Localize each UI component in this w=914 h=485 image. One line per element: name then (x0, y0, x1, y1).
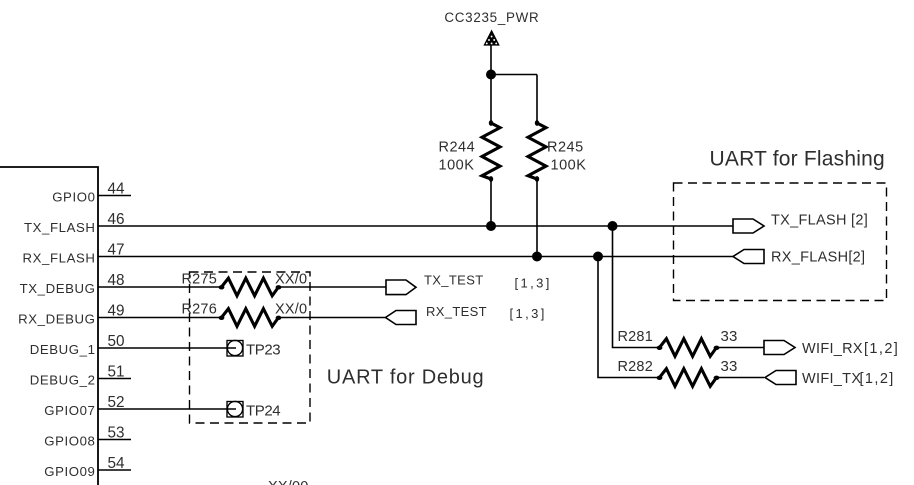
svg-text:R282: R282 (618, 359, 653, 375)
svg-text:XX/0: XX/0 (275, 302, 307, 318)
svg-text:33: 33 (721, 358, 738, 375)
svg-text:TX_DEBUG: TX_DEBUG (20, 281, 96, 296)
svg-text:[1,3]: [1,3] (515, 276, 552, 291)
svg-text:RX_DEBUG: RX_DEBUG (18, 312, 95, 327)
svg-text:RX_TEST: RX_TEST (426, 304, 487, 319)
svg-text:XX/0: XX/0 (275, 272, 307, 288)
svg-text:RX_FLASH[2]: RX_FLASH[2] (771, 250, 865, 266)
svg-text:48: 48 (108, 272, 125, 289)
svg-text:46: 46 (108, 211, 125, 228)
svg-text:GPIO08: GPIO08 (44, 434, 95, 449)
svg-text:100K: 100K (439, 158, 475, 174)
svg-text:[1,3]: [1,3] (510, 306, 547, 321)
svg-text:100K: 100K (551, 158, 587, 174)
svg-text:54: 54 (108, 455, 126, 472)
svg-text:TX_FLASH: TX_FLASH (24, 220, 96, 235)
svg-text:WIFI_RX: WIFI_RX (802, 341, 863, 357)
svg-text:DEBUG_2: DEBUG_2 (30, 373, 96, 388)
svg-text:R276: R276 (182, 302, 217, 318)
svg-text:[1,2]: [1,2] (864, 341, 899, 357)
svg-text:49: 49 (108, 303, 125, 320)
svg-text:GPIO0: GPIO0 (52, 190, 95, 205)
svg-text:TX_TEST: TX_TEST (424, 273, 484, 288)
svg-text:UART for Flashing: UART for Flashing (710, 148, 885, 171)
svg-text:53: 53 (108, 425, 125, 442)
svg-text:[1,2]: [1,2] (860, 371, 895, 387)
svg-text:TP24: TP24 (246, 403, 280, 420)
svg-text:44: 44 (108, 181, 126, 198)
svg-text:51: 51 (108, 364, 125, 381)
svg-text:DEBUG_1: DEBUG_1 (30, 342, 96, 357)
svg-text:52: 52 (108, 394, 125, 411)
svg-text:TX_FLASH [2]: TX_FLASH [2] (771, 213, 868, 229)
svg-text:50: 50 (108, 333, 125, 350)
svg-text:R281: R281 (618, 329, 653, 345)
svg-text:R244: R244 (439, 140, 476, 156)
svg-text:RX_FLASH: RX_FLASH (23, 251, 96, 266)
svg-text:CC3235_PWR: CC3235_PWR (444, 10, 539, 25)
svg-text:WIFI_TX: WIFI_TX (802, 371, 861, 387)
svg-text:TP23: TP23 (246, 342, 280, 359)
svg-text:XX/00: XX/00 (268, 479, 309, 485)
svg-text:R245: R245 (547, 140, 584, 156)
svg-text:UART for Debug: UART for Debug (327, 367, 485, 389)
svg-text:47: 47 (108, 242, 125, 259)
svg-text:GPIO07: GPIO07 (44, 403, 95, 418)
svg-text:33: 33 (721, 328, 738, 345)
svg-text:R275: R275 (182, 272, 217, 288)
svg-text:GPIO09: GPIO09 (44, 464, 95, 479)
